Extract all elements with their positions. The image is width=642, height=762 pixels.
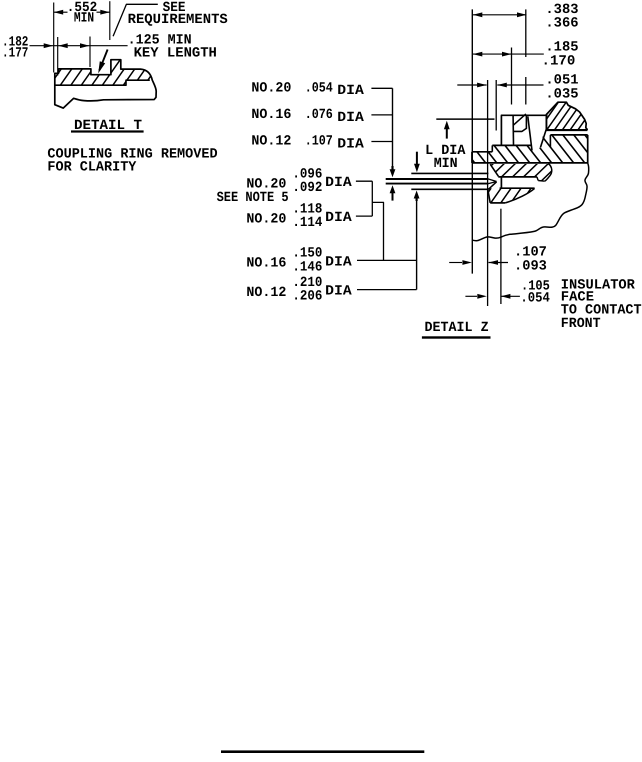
funnel inner slant upper bbox=[488, 179, 496, 182]
extension line left face Detail T bbox=[53, 3, 55, 73]
contact cavity bottom line bbox=[500, 187, 535, 189]
contact bore step bbox=[537, 177, 538, 181]
funnel lower slant bbox=[488, 182, 496, 190]
svg-text:.206: .206 bbox=[292, 289, 322, 305]
clip window right slant bbox=[541, 130, 547, 148]
L DIA upper reference line bbox=[436, 118, 494, 120]
leader arrow to key slot bbox=[98, 50, 107, 74]
svg-text:NO.16: NO.16 bbox=[251, 107, 291, 123]
extension line V5 bbox=[525, 9, 527, 57]
svg-text:.092: .092 bbox=[292, 180, 322, 196]
dimension .051/.035 arrows bbox=[457, 83, 543, 88]
svg-text:.054: .054 bbox=[520, 291, 549, 307]
dimension .105/.054 arrows bbox=[465, 294, 520, 299]
svg-text:DETAIL Z: DETAIL Z bbox=[425, 320, 489, 336]
grommet hump left edge bbox=[545, 114, 547, 129]
contact line upper inner bbox=[386, 178, 489, 180]
insert top edge line bbox=[501, 114, 548, 116]
leader NO.16 .150/.146 bbox=[357, 259, 417, 261]
contact line lower inner bbox=[386, 183, 489, 185]
svg-text:NO.16: NO.16 bbox=[246, 256, 286, 272]
leader NO.20 .054 DIA bbox=[371, 87, 392, 89]
dimension .185/.170 line bbox=[473, 52, 544, 57]
retention cavity right wall bbox=[512, 116, 514, 145]
retention clip hatch line bbox=[513, 114, 526, 126]
lower grommet right curve bbox=[505, 188, 534, 203]
insert band top edge right bbox=[550, 134, 587, 136]
svg-text:.177: .177 bbox=[2, 45, 28, 61]
svg-text:DIA: DIA bbox=[325, 175, 352, 191]
svg-text:DIA: DIA bbox=[337, 136, 364, 152]
lower grommet left slant bbox=[488, 188, 491, 203]
insert funnel upper slant bbox=[490, 164, 498, 176]
clip window left slant bbox=[528, 116, 532, 150]
callout NO.20 .096/.092 DIA bbox=[246, 166, 352, 196]
svg-text:.146: .146 bbox=[292, 259, 322, 275]
leader NO.12 .107 DIA bbox=[371, 141, 392, 143]
leader NO.12 .210/.206 bbox=[357, 289, 417, 291]
leader SEE REQUIREMENTS bbox=[113, 4, 158, 36]
title underline Detail Z bbox=[422, 336, 491, 338]
grommet nub top edge bbox=[472, 151, 492, 153]
extension line V2 (insulator face) bbox=[487, 80, 489, 306]
svg-text:.093: .093 bbox=[514, 259, 547, 275]
page footer rule bbox=[221, 750, 424, 753]
svg-text:NO.12: NO.12 bbox=[246, 285, 286, 301]
contact bore top line bbox=[498, 176, 537, 178]
callout NO.16 .150/.146 DIA bbox=[246, 246, 352, 276]
L DIA up arrow bbox=[444, 121, 450, 139]
callout NO.20 .118/.114 DIA bbox=[246, 201, 352, 231]
up arrow small dimension at contact wall bbox=[390, 185, 396, 200]
dimension .107/.093 arrows bbox=[449, 260, 508, 265]
svg-text:.035: .035 bbox=[545, 87, 578, 103]
leader NO.20 .096/.092 bbox=[356, 180, 372, 182]
svg-text:FRONT: FRONT bbox=[561, 316, 601, 332]
svg-text:DIA: DIA bbox=[325, 254, 352, 270]
grommet hump outline bbox=[546, 102, 587, 130]
svg-text:NO.20: NO.20 bbox=[246, 211, 286, 227]
contact line upper outer bbox=[411, 172, 488, 174]
svg-text:SEE NOTE 5: SEE NOTE 5 bbox=[217, 190, 289, 206]
svg-text:MIN: MIN bbox=[434, 156, 458, 172]
svg-text:DIA: DIA bbox=[337, 110, 364, 126]
contact front face bbox=[500, 177, 502, 188]
leader bracket rows .096/.118 bbox=[371, 181, 373, 216]
grommet nub left edge bbox=[471, 152, 473, 163]
retention clip piece outline bbox=[513, 115, 526, 131]
grommet hump bottom line bbox=[546, 129, 588, 131]
extension line V4 bbox=[511, 48, 513, 105]
extension line contact front (bottom) bbox=[500, 209, 502, 304]
svg-text:NO.12: NO.12 bbox=[251, 134, 291, 150]
leader/dimension line .182/.177 and key length bbox=[30, 43, 128, 48]
callout NO.12 .107 DIA bbox=[251, 134, 364, 153]
svg-text:.366: .366 bbox=[545, 16, 578, 32]
callout NO.12 .210/.206 DIA bbox=[246, 275, 352, 305]
insert rear shoulder arc bbox=[545, 164, 552, 182]
svg-text:NO.20: NO.20 bbox=[251, 80, 291, 96]
dimension .383/.366 line bbox=[473, 12, 527, 17]
extension line key slot right bbox=[89, 37, 91, 68]
title underline Detail T bbox=[71, 130, 144, 132]
extension line key slot left bbox=[57, 37, 59, 76]
svg-text:.076: .076 bbox=[305, 107, 333, 123]
svg-text:MIN: MIN bbox=[74, 10, 94, 26]
extension line key tab Detail T bbox=[109, 1, 111, 40]
svg-text:DIA: DIA bbox=[325, 210, 352, 226]
svg-text:.054: .054 bbox=[305, 80, 333, 96]
funnel inner slant lower bbox=[488, 182, 496, 184]
leader branch from bracket bbox=[372, 202, 383, 260]
callout NO.20 .054 DIA bbox=[251, 80, 364, 99]
insert band bottom long line bbox=[472, 162, 588, 164]
leader vertical with up arrow to contact lower line bbox=[414, 191, 420, 290]
svg-text:REQUIREMENTS: REQUIREMENTS bbox=[128, 12, 228, 28]
svg-text:.170: .170 bbox=[542, 54, 576, 70]
insert band left vertical (rear of clip window) bbox=[549, 135, 551, 148]
L DIA down arrow bbox=[414, 152, 420, 173]
contact barrel line bbox=[538, 180, 545, 183]
svg-text:KEY LENGTH: KEY LENGTH bbox=[134, 46, 217, 62]
extension line V1 (shell ref) bbox=[471, 9, 473, 273]
dimension .552 MIN line bbox=[54, 10, 110, 15]
svg-text:FOR CLARITY: FOR CLARITY bbox=[47, 160, 137, 176]
shell band inner bottom line bbox=[55, 80, 150, 85]
insert band top edge left bbox=[492, 144, 531, 146]
insert band left edge bbox=[491, 145, 493, 151]
leader NO.20 .118/.114 bbox=[356, 215, 372, 217]
svg-text:.107: .107 bbox=[305, 134, 333, 150]
svg-text:DIA: DIA bbox=[337, 83, 364, 99]
svg-text:.114: .114 bbox=[292, 215, 322, 231]
insert band right edge bbox=[587, 135, 589, 163]
lower grommet bottom edge bbox=[490, 202, 505, 204]
coupling shell outline Detail T bbox=[55, 60, 156, 108]
svg-text:DIA: DIA bbox=[325, 284, 352, 300]
callout NO.16 .076 DIA bbox=[251, 107, 364, 126]
break line wavy boundary bbox=[473, 163, 589, 241]
leader NO.16 .076 DIA bbox=[371, 114, 392, 116]
extension line V3 bbox=[495, 80, 497, 131]
leader vertical for NO.20/NO.16/NO.12 DIA with down arrow bbox=[390, 88, 396, 177]
contact line lower outer bbox=[411, 188, 488, 190]
retention cavity left wall bbox=[500, 115, 502, 145]
